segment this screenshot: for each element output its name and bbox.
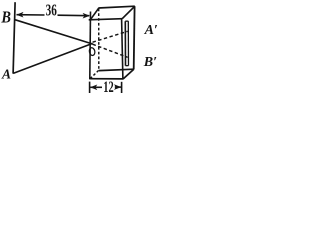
dimension 12 right extension tick [121,82,123,93]
box front-left edge [89,12,92,80]
object line AB [13,2,15,73]
box back-bottom edge [99,69,134,70]
box top-right depth slant [122,6,135,19]
dimension 12 line right segment [115,86,121,88]
dimension 12 right arrowhead [114,84,121,90]
box back-right edge [133,6,136,69]
dimension 12 left extension tick [89,82,91,93]
ray A to O [13,43,92,73]
dimension 36 left arrowhead [16,12,23,18]
dimension 36 line right segment [58,14,90,17]
box front-right edge [122,19,123,79]
box back-left hidden edge (dashed) [98,9,100,71]
ray O to B' (dashed) [93,44,128,57]
screen strip bottom edge [126,65,129,67]
dimension 12 left arrowhead [90,85,97,91]
screen strip top edge [125,20,128,22]
box front-bottom edge [89,78,123,80]
ray B to O [15,20,92,44]
box top-left depth slant [90,8,98,20]
label O [89,47,96,56]
dimension 36 line left segment [17,14,45,16]
box bottom-right depth slant [123,69,134,79]
screen strip right edge [127,21,129,66]
screen strip left edge [124,21,126,65]
box front-top edge [89,19,123,20]
dimension 36 right arrowhead [83,13,90,19]
svg-text:A′: A′ [144,23,158,38]
svg-text:B′: B′ [143,55,157,70]
dimension 12 line left segment [90,86,102,88]
box back-top edge [99,6,135,8]
svg-text:A: A [1,67,11,82]
box bottom-left hidden depth slant (dashed) [90,70,98,78]
svg-text:B: B [1,7,11,26]
svg-text:12: 12 [103,79,113,96]
ray O to A' (dashed) [93,31,128,42]
svg-text:36: 36 [46,1,57,20]
